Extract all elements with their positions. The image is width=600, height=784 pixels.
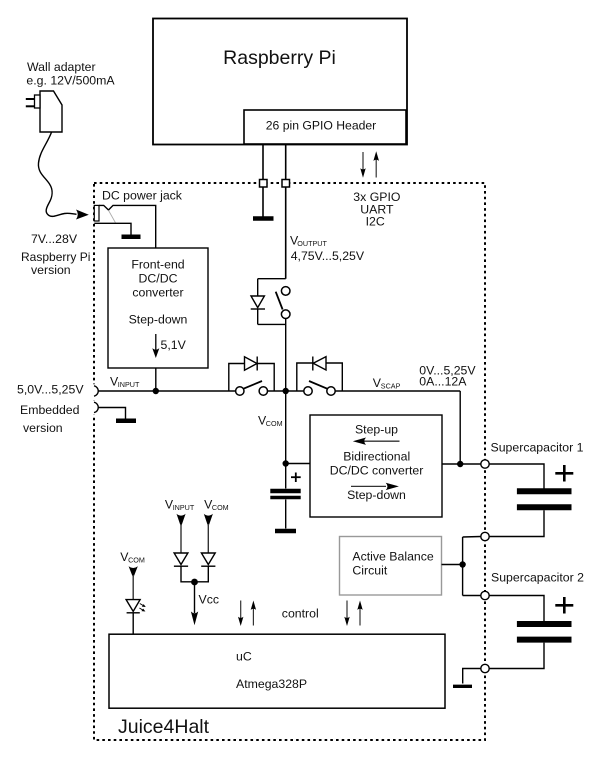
svg-text:e.g. 12V/500mA: e.g. 12V/500mA bbox=[26, 73, 115, 87]
ground GND (buffer capacitor) bbox=[275, 529, 296, 534]
net arrow Vinput bbox=[177, 514, 186, 527]
terminal pin SC1 + bbox=[481, 460, 489, 468]
switch SW2 contact right bbox=[327, 387, 335, 395]
svg-text:Active Balance: Active Balance bbox=[352, 550, 434, 564]
arrow control up (balance side right) bbox=[359, 609, 361, 626]
wall adapter mains prong lower bbox=[26, 105, 35, 107]
svg-text:SCAP: SCAP bbox=[381, 381, 401, 390]
adapter output cable bbox=[38, 132, 76, 216]
wire Vcom to diode D5 bbox=[207, 524, 209, 553]
wire SC1 positive lead bbox=[489, 464, 544, 489]
LED light rays bbox=[140, 604, 144, 607]
svg-text:INPUT: INPUT bbox=[173, 503, 195, 512]
svg-text:version: version bbox=[31, 263, 71, 277]
svg-text:COM: COM bbox=[128, 555, 145, 564]
svg-text:DC power jack: DC power jack bbox=[102, 188, 183, 202]
svg-text:5,1V: 5,1V bbox=[161, 338, 187, 352]
svg-text:Supercapacitor 2: Supercapacitor 2 bbox=[491, 570, 584, 584]
wire bypass loop 1 left bbox=[229, 364, 245, 392]
cable arrowhead into jack bbox=[76, 210, 89, 220]
wire capacitor to ground bbox=[285, 500, 287, 529]
svg-text:Juice4Halt: Juice4Halt bbox=[118, 716, 210, 738]
svg-text:Bidirectional: Bidirectional bbox=[343, 450, 410, 464]
svg-text:OUTPUT: OUTPUT bbox=[297, 239, 327, 248]
svg-text:DC/DC converter: DC/DC converter bbox=[330, 464, 424, 478]
diode D4 bbox=[174, 553, 188, 565]
switch SW1 contact left bbox=[236, 387, 244, 395]
terminal pin SC1 - bbox=[481, 532, 489, 540]
wire jack tip contact to front-end converter bbox=[99, 205, 156, 248]
svg-text:Step-up: Step-up bbox=[355, 422, 398, 436]
wire Vcom to bidirectional converter bbox=[286, 463, 310, 465]
wall adapter plug base bbox=[35, 95, 41, 108]
switch SW2 lever bbox=[309, 381, 328, 389]
wire SC2 positive lead bbox=[489, 596, 544, 622]
junction front-end output / bus bbox=[153, 388, 159, 394]
svg-text:Step-down: Step-down bbox=[129, 312, 188, 326]
polarity mark + (SC1) bbox=[555, 472, 573, 475]
svg-text:Front-end: Front-end bbox=[131, 257, 184, 271]
svg-text:26 pin GPIO Header: 26 pin GPIO Header bbox=[266, 119, 376, 133]
microcontroller uC Atmega328P box U4 bbox=[109, 634, 445, 708]
svg-text:version: version bbox=[23, 421, 63, 435]
arrow step-up (left) bbox=[364, 440, 400, 442]
wire bus between switches bbox=[268, 390, 305, 392]
net arrow Vcom bbox=[204, 514, 213, 527]
supercapacitor C3 (SC2) bbox=[517, 621, 572, 627]
svg-text:INPUT: INPUT bbox=[118, 380, 140, 389]
svg-text:Supercapacitor 1: Supercapacitor 1 bbox=[491, 440, 584, 454]
wire output block top rail bbox=[258, 278, 286, 280]
svg-text:Wall adapter: Wall adapter bbox=[27, 60, 96, 74]
switch SW3 contact upper bbox=[281, 287, 290, 296]
polarity mark + (SC2) bbox=[555, 604, 573, 607]
arrow Vcc to uC bbox=[194, 582, 196, 613]
arrow control down (balance side right) bbox=[346, 601, 348, 619]
svg-text:COM: COM bbox=[212, 503, 229, 512]
capacitor C1 (buffer electrolytic) bbox=[270, 489, 300, 493]
wire diodes to Vcc node bbox=[181, 566, 208, 582]
net arrow Vcom LED bbox=[129, 566, 138, 578]
junction Vscap / supercap 1 bbox=[457, 461, 463, 467]
svg-text:Vcc: Vcc bbox=[199, 592, 220, 606]
wall adapter mains prong upper bbox=[26, 98, 35, 100]
wall adapter body bbox=[40, 91, 62, 132]
Active Balance Circuit box U3 bbox=[340, 537, 442, 596]
wire Vcom down to capacitor bbox=[285, 391, 287, 489]
arrow step-down (right) bbox=[351, 485, 386, 487]
ground GND (jack sleeve) bbox=[122, 235, 141, 240]
switch SW3 lever bbox=[276, 292, 283, 310]
wire SC1 negative lead bbox=[489, 510, 544, 536]
LED D6 bbox=[126, 600, 140, 612]
arrow control down (balance side left) bbox=[240, 601, 242, 619]
Front-end DC/DC converter box U1 bbox=[108, 248, 208, 368]
wire pad to ground bbox=[262, 187, 264, 217]
svg-text:COM: COM bbox=[266, 419, 283, 428]
pad P1 (module edge, ground pin) bbox=[260, 180, 268, 188]
wire LED to uC bbox=[132, 613, 134, 634]
svg-text:Raspberry Pi: Raspberry Pi bbox=[21, 250, 90, 264]
wire midpoint to SC1 - pin bbox=[463, 536, 481, 539]
diode D2 (bypass, pointing left) bbox=[312, 357, 314, 371]
connector pin GND (embedded supply -) bbox=[92, 401, 100, 415]
wire GPIO header to pad (left) bbox=[262, 144, 264, 180]
junction balance midpoint bbox=[459, 561, 465, 567]
wire Vinput bus left segment bbox=[99, 390, 236, 392]
svg-text:converter: converter bbox=[132, 286, 183, 300]
diode D5 bbox=[201, 553, 215, 565]
wire Vinput to diode D4 bbox=[180, 524, 182, 553]
switch SW2 contact left bbox=[304, 387, 312, 395]
svg-text:Step-down: Step-down bbox=[347, 488, 406, 502]
supercapacitor C2 (SC1) bbox=[517, 488, 572, 494]
switch SW3 contact lower bbox=[281, 310, 290, 319]
arrow GPIO signals up bbox=[375, 159, 377, 178]
svg-text:Circuit: Circuit bbox=[352, 564, 387, 578]
svg-text:I2C: I2C bbox=[366, 215, 385, 229]
junction Vcom / converter input bbox=[283, 460, 289, 466]
arrow control up (balance side left) bbox=[252, 609, 254, 626]
terminal pin SC2 + bbox=[481, 591, 489, 599]
Bidirectional DC/DC converter box U2 bbox=[310, 415, 442, 517]
DC jack spring contact lever bbox=[108, 210, 115, 222]
svg-text:7V...28V: 7V...28V bbox=[31, 232, 78, 246]
diode D1 (bypass, pointing right) bbox=[245, 357, 258, 370]
wire GPIO header to Voutput net bbox=[285, 144, 287, 279]
wire Vscap bus right segment bbox=[335, 390, 460, 392]
wire midpoint to SC2 + pin bbox=[463, 595, 481, 597]
svg-text:Embedded: Embedded bbox=[20, 403, 80, 417]
DC power jack J1 barrel bbox=[94, 205, 99, 221]
wire supercap midpoint vertical bbox=[462, 537, 464, 596]
arrow 5,1V output down bbox=[155, 334, 157, 350]
svg-text:Atmega328P: Atmega328P bbox=[236, 677, 307, 691]
arrow GPIO signals down bbox=[362, 152, 364, 170]
wire converter to supercap terminal 1 bbox=[442, 463, 481, 465]
wire SC2 - pin to ground bbox=[463, 669, 481, 684]
wire SC2 negative lead bbox=[489, 643, 544, 669]
svg-text:0A...12A: 0A...12A bbox=[419, 374, 467, 388]
ground GND (GPIO return) bbox=[253, 216, 274, 221]
wire diode branch upper bbox=[257, 279, 259, 296]
svg-text:Raspberry Pi: Raspberry Pi bbox=[223, 47, 336, 69]
terminal pin SC2 - bbox=[481, 664, 489, 672]
wire output block to bus junction bbox=[285, 319, 287, 392]
switch SW1 lever bbox=[244, 381, 263, 389]
diode D3 (output block, pointing down) bbox=[251, 296, 264, 308]
switch SW1 contact right bbox=[259, 387, 267, 395]
junction Voutput / bus bbox=[283, 388, 289, 394]
svg-text:control: control bbox=[282, 607, 319, 621]
pad P2 (module edge, 5V pin) bbox=[282, 180, 290, 188]
wire bypass loop 1 right bbox=[257, 364, 274, 392]
wire bypass loop 2 left bbox=[297, 363, 313, 391]
wire Vscap vertical drop bbox=[459, 391, 461, 464]
wire jack sleeve contact to ground bbox=[94, 223, 131, 234]
svg-text:4,75V...5,25V: 4,75V...5,25V bbox=[291, 249, 365, 263]
ground GND (embedded) bbox=[116, 419, 136, 424]
wire diode branch lower bbox=[257, 309, 259, 324]
svg-text:5,0V...5,25V: 5,0V...5,25V bbox=[17, 383, 84, 397]
svg-text:uC: uC bbox=[236, 650, 252, 664]
svg-text:DC/DC: DC/DC bbox=[139, 272, 178, 286]
connector pin Vinput (embedded supply +) bbox=[92, 384, 100, 398]
wire output block bottom rail bbox=[258, 323, 286, 325]
26 pin GPIO Header box bbox=[244, 110, 406, 144]
wire Vcom to LED bbox=[132, 575, 134, 600]
wire front-end converter output to bus bbox=[155, 368, 157, 391]
junction Vcc node bbox=[191, 579, 198, 586]
wire bypass loop 2 right bbox=[326, 363, 342, 391]
wire balance circuit to midpoint bbox=[442, 564, 463, 566]
Juice4Halt module dashed enclosure bbox=[94, 183, 485, 740]
wire embedded pin to ground bbox=[99, 408, 126, 419]
polarity mark + (buffer capacitor) bbox=[291, 476, 301, 478]
Raspberry Pi board box bbox=[153, 19, 407, 145]
ground GND (supercap 2) bbox=[453, 685, 472, 688]
